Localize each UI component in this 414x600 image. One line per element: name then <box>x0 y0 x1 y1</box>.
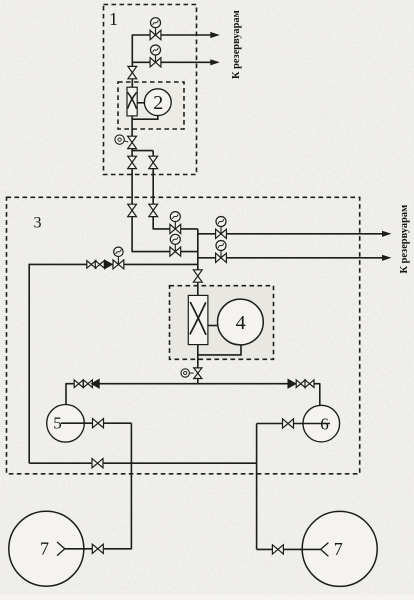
svg-text:К резервуарам: К резервуарам <box>399 205 410 274</box>
svg-text:6: 6 <box>320 415 329 434</box>
svg-text:4: 4 <box>236 312 246 334</box>
svg-text:5: 5 <box>53 414 62 433</box>
svg-text:1: 1 <box>109 9 118 29</box>
svg-text:2: 2 <box>153 92 163 114</box>
svg-text:3: 3 <box>34 215 42 232</box>
svg-text:7: 7 <box>40 539 49 559</box>
svg-text:7: 7 <box>334 539 343 559</box>
svg-text:К резервуарам: К резервуарам <box>231 10 242 79</box>
